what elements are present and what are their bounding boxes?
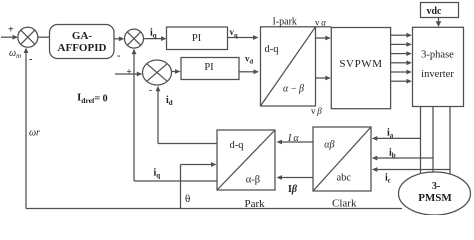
- wire vdc to inverter: [436, 18, 442, 28]
- wire ic to Clark: [372, 167, 450, 172]
- wire SVPWM to inverter arrow 1: [391, 33, 412, 38]
- wire ia to Clark: [372, 136, 421, 141]
- wire Ibeta Clark to Park: [277, 175, 314, 180]
- svg-text:-: -: [117, 51, 120, 62]
- block Park transform: [217, 130, 275, 190]
- wire speed feedback vertical to S1: [24, 48, 29, 209]
- svg-text:ic: ic: [385, 173, 391, 185]
- block I-park transform: [261, 27, 316, 106]
- wire ib to Clark: [372, 156, 433, 161]
- svg-text:GA-: GA-: [72, 30, 93, 42]
- svg-text:3-phase: 3-phase: [421, 50, 454, 61]
- wire SVPWM to inverter arrow 5: [391, 70, 412, 75]
- wire SVPWM to inverter arrow 4: [391, 60, 412, 65]
- svg-text:vdc: vdc: [427, 6, 443, 17]
- summing junction S1: [18, 27, 38, 47]
- svg-text:α-β: α-β: [246, 175, 260, 186]
- svg-text:d-q: d-q: [265, 44, 280, 55]
- block SVPWM: [331, 28, 390, 109]
- wire SVPWM to inverter arrow 3: [391, 51, 412, 56]
- wire phase a vertical: [420, 107, 422, 175]
- wire theta to Park: [181, 162, 217, 167]
- svg-text:ωr: ωr: [29, 128, 40, 139]
- svg-text:id: id: [166, 95, 173, 107]
- wire bus to SVPWM arrow 2: [316, 76, 331, 81]
- block PI controller 1: [167, 27, 228, 50]
- wire Ialpha Clark to Park: [277, 140, 314, 145]
- wire theta vertical: [180, 165, 182, 209]
- wire SVPWM to inverter arrow 2: [391, 42, 412, 47]
- svg-text:PI: PI: [204, 62, 214, 73]
- wire speed reference input: [1, 35, 18, 40]
- svg-text:I-park: I-park: [273, 16, 297, 27]
- svg-text:PI: PI: [192, 33, 202, 44]
- wire PI1 to I-park vq: [228, 35, 259, 40]
- svg-text:Idref= 0: Idref= 0: [77, 92, 108, 106]
- summing junction S3: [143, 60, 172, 85]
- svg-text:inverter: inverter: [421, 69, 454, 80]
- svg-text:Park: Park: [245, 198, 266, 210]
- wire bus to SVPWM arrow 1: [316, 36, 331, 41]
- wire Idref input to S3: [115, 72, 142, 77]
- wire iq feedback from Park to S2: [132, 49, 217, 181]
- svg-text:PMSM: PMSM: [418, 192, 452, 204]
- svg-text:v α: v α: [315, 18, 326, 28]
- svg-text:3-: 3-: [432, 181, 440, 192]
- svg-text:-: -: [29, 54, 32, 65]
- block vdc source: [421, 3, 459, 18]
- block Clark transform: [313, 127, 371, 191]
- svg-text:I α: I α: [287, 133, 299, 144]
- svg-text:AFFOPID: AFFOPID: [58, 42, 107, 54]
- wire GA-AFFOPID to summer S2: [114, 36, 124, 41]
- svg-text:vd: vd: [245, 54, 254, 66]
- svg-text:α − β: α − β: [283, 84, 304, 95]
- svg-text:ia: ia: [387, 128, 394, 140]
- wire id feedback from Park to S3: [156, 86, 217, 144]
- wire S3 to PI2: [172, 69, 181, 74]
- wire PI2 to I-park vd: [239, 69, 260, 74]
- wire phase c vertical: [449, 107, 451, 175]
- svg-text:abc: abc: [337, 173, 352, 184]
- wire phase b vertical: [432, 107, 434, 173]
- wire S2 to PI1 with iq label: [144, 36, 167, 41]
- svg-text:+: +: [8, 25, 14, 36]
- svg-text:iq: iq: [150, 28, 157, 40]
- svg-text:v β: v β: [311, 106, 322, 116]
- svg-text:SVPWM: SVPWM: [339, 58, 382, 70]
- svg-text:θ: θ: [185, 193, 190, 205]
- summing junction S2: [125, 29, 144, 48]
- wire SVPWM to inverter arrow 6: [391, 79, 412, 84]
- block PMSM motor: [399, 172, 471, 215]
- svg-text:ib: ib: [389, 148, 396, 160]
- block 3-phase inverter: [413, 27, 464, 106]
- svg-text:+: +: [127, 67, 132, 77]
- svg-text:Clark: Clark: [332, 198, 357, 210]
- svg-text:Iβ: Iβ: [288, 184, 298, 195]
- svg-text:ωm: ωm: [9, 48, 21, 60]
- wire valpha top horizontal: [316, 26, 332, 28]
- svg-text:iq: iq: [154, 168, 161, 180]
- block GA-AFFOPID controller: [50, 25, 115, 59]
- svg-text:αβ: αβ: [324, 140, 334, 151]
- svg-text:d-q: d-q: [230, 140, 245, 151]
- block PI controller 2: [181, 58, 239, 80]
- svg-text:-: -: [149, 85, 152, 95]
- wire S1 to GA-AFFOPID: [38, 36, 50, 38]
- wire speed feedback bottom: [26, 208, 402, 210]
